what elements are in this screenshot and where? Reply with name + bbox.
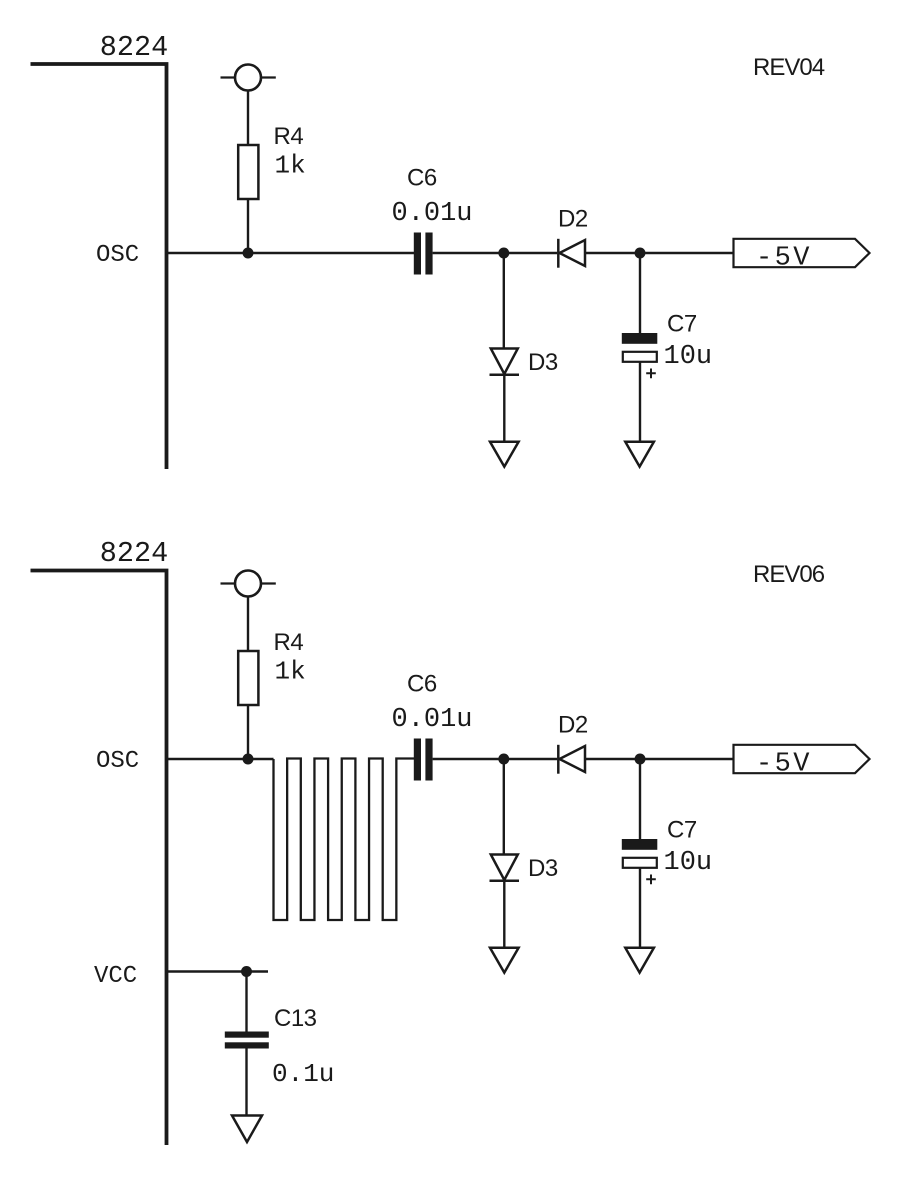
svg-text:0.1u: 0.1u bbox=[272, 1059, 334, 1089]
svg-text:C6: C6 bbox=[407, 671, 437, 698]
resistor R4 (top) bbox=[238, 145, 258, 199]
junction dot node A (top) bbox=[498, 248, 509, 259]
net flag -5V (bottom) bbox=[734, 745, 870, 773]
wire C7 to ground bbox=[639, 362, 641, 442]
svg-text:8224: 8224 bbox=[100, 31, 168, 64]
svg-text:D2: D2 bbox=[558, 712, 588, 739]
svg-text:VCC: VCC bbox=[94, 963, 137, 990]
wire C7 to ground (bottom) bbox=[639, 868, 641, 948]
wire D3 to ground bbox=[503, 375, 505, 442]
wire VCC to C13 bbox=[245, 972, 247, 1033]
diode D2 (bottom) bbox=[558, 745, 585, 774]
ground symbol at D3 (bottom) bbox=[490, 948, 519, 973]
svg-text:C6: C6 bbox=[407, 165, 437, 192]
svg-text:REV06: REV06 bbox=[753, 561, 825, 588]
wire OSC pin to meander bbox=[168, 758, 274, 760]
wire C6 to D2 (bottom) bbox=[433, 758, 557, 760]
svg-text:OSC: OSC bbox=[96, 242, 139, 269]
power flag P2 (bottom) bbox=[221, 571, 276, 597]
wire node A to D3 bbox=[503, 253, 505, 349]
ground symbol at C7 (bottom) bbox=[625, 948, 654, 973]
capacitor C6 (top) bbox=[414, 233, 433, 275]
diode D3 (top) bbox=[490, 349, 520, 375]
diode D2 (top) bbox=[558, 239, 585, 268]
junction dot VCC bbox=[241, 966, 252, 977]
svg-text:1k: 1k bbox=[275, 151, 306, 181]
wire C13 to ground bbox=[245, 1049, 247, 1117]
capacitor C13 bbox=[225, 1032, 269, 1049]
wire power flag to R4 (bottom) bbox=[247, 597, 249, 653]
wire power flag to R4 bbox=[247, 91, 249, 147]
junction dot node B (top) bbox=[635, 248, 646, 259]
wire node B to C7 bbox=[639, 253, 641, 334]
wire R4 to OSC net (bottom) bbox=[247, 705, 249, 759]
svg-text:D3: D3 bbox=[528, 349, 558, 376]
wire OSC pin to C6 bbox=[168, 252, 414, 254]
wire VCC pin bbox=[168, 970, 268, 972]
capacitor C7 polarized (top) bbox=[622, 333, 658, 378]
wire D3 to ground (bottom) bbox=[503, 881, 505, 948]
svg-text:C13: C13 bbox=[274, 1005, 317, 1032]
IC 8224 body edge (REV04 section) bbox=[31, 64, 167, 469]
svg-text:OSC: OSC bbox=[96, 748, 139, 775]
wire D2 to -5V flag (bottom) bbox=[585, 758, 734, 760]
ground symbol at D3 (top) bbox=[490, 442, 519, 467]
capacitor C6 (bottom) bbox=[414, 739, 433, 781]
svg-text:10u: 10u bbox=[664, 848, 713, 878]
svg-text:8224: 8224 bbox=[100, 537, 168, 570]
svg-text:D3: D3 bbox=[528, 855, 558, 882]
svg-text:1k: 1k bbox=[275, 657, 306, 687]
svg-text:R4: R4 bbox=[274, 123, 304, 150]
svg-text:0.01u: 0.01u bbox=[392, 199, 473, 229]
ground symbol at C7 (top) bbox=[625, 442, 654, 467]
wire R4 to OSC net bbox=[247, 199, 249, 253]
svg-text:R4: R4 bbox=[274, 629, 304, 656]
svg-text:D2: D2 bbox=[558, 206, 588, 233]
svg-text:REV04: REV04 bbox=[753, 54, 825, 81]
capacitor C7 polarized (bottom) bbox=[622, 839, 658, 884]
wire D2 to -5V flag bbox=[585, 252, 734, 254]
meander trace loop (bottom) bbox=[274, 759, 415, 921]
svg-text:C7: C7 bbox=[667, 817, 697, 844]
svg-text:-5V: -5V bbox=[756, 244, 812, 274]
svg-text:10u: 10u bbox=[664, 342, 713, 372]
svg-text:-5V: -5V bbox=[756, 750, 812, 780]
net flag -5V (top) bbox=[734, 239, 870, 267]
resistor R4 (bottom) bbox=[238, 651, 258, 705]
svg-text:C7: C7 bbox=[667, 311, 697, 338]
IC 8224 body edge (REV06 section) bbox=[31, 571, 167, 1146]
junction dot node B (bottom) bbox=[635, 754, 646, 765]
svg-text:0.01u: 0.01u bbox=[392, 705, 473, 735]
junction dot node A (bottom) bbox=[498, 754, 509, 765]
junction dot R4/OSC (bottom) bbox=[243, 754, 254, 765]
wire C6 to D2 bbox=[433, 252, 557, 254]
wire node A to D3 (bottom) bbox=[503, 759, 505, 855]
wire node B to C7 (bottom) bbox=[639, 759, 641, 840]
junction dot R4/OSC bbox=[243, 248, 254, 259]
power flag P1 (top) bbox=[221, 65, 276, 91]
ground symbol at C13 bbox=[232, 1116, 262, 1143]
diode D3 (bottom) bbox=[490, 855, 520, 881]
